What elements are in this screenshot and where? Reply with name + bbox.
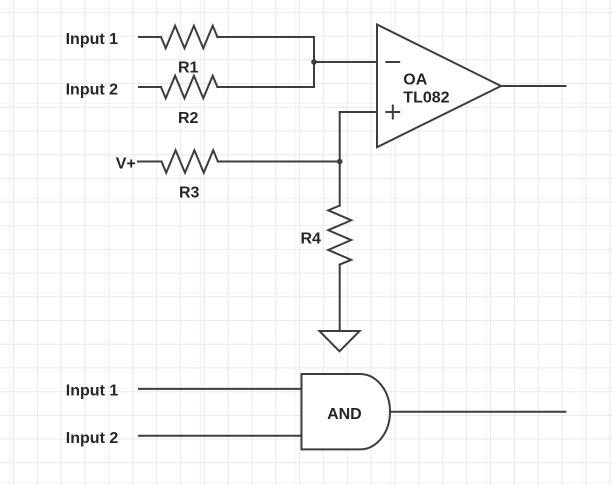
junction node B dot — [337, 159, 343, 165]
ground symbol — [319, 331, 359, 351]
wire V+ to R3 — [138, 161, 162, 163]
wire node B down to R4 — [339, 162, 341, 206]
op-amp non-inverting pin marker (plus) — [385, 105, 400, 120]
wire node A to op-amp inverting input — [314, 61, 377, 63]
svg-text:V+: V+ — [116, 155, 136, 172]
svg-text:R3: R3 — [179, 185, 200, 202]
resistor R2 — [161, 76, 217, 99]
svg-text:TL082: TL082 — [403, 89, 449, 106]
resistor R3 — [162, 150, 218, 173]
svg-text:Input 2: Input 2 — [66, 82, 119, 99]
svg-text:Input 2: Input 2 — [66, 430, 119, 447]
svg-text:R1: R1 — [178, 59, 199, 76]
resistor R4 — [328, 206, 351, 265]
junction node A dot — [311, 59, 317, 65]
wire vertical tying R1 and R2 outputs — [313, 37, 315, 87]
svg-text:AND: AND — [327, 406, 362, 423]
resistor R1 — [161, 26, 217, 49]
wire op-amp output — [501, 85, 566, 87]
svg-text:Input 1: Input 1 — [66, 31, 119, 48]
svg-text:R2: R2 — [178, 110, 199, 127]
op-amp inverting pin marker (minus) — [385, 61, 400, 63]
wire R2 to junction column — [217, 86, 314, 88]
wire AND Input 2 lead — [139, 435, 302, 437]
wire node B up to non-inverting input — [339, 112, 341, 162]
svg-text:Input 1: Input 1 — [66, 383, 119, 400]
wire op-amp non-inverting input horizontal — [340, 111, 377, 113]
svg-text:R4: R4 — [301, 231, 322, 248]
op-amp U1 body — [377, 25, 501, 148]
wire R1 to junction column — [217, 36, 314, 38]
svg-text:OA: OA — [403, 71, 427, 88]
wire R3 to node B — [218, 161, 340, 163]
wire R4 to ground — [339, 265, 341, 331]
wire AND Input 1 lead — [139, 388, 302, 390]
wire AND output — [390, 411, 566, 413]
wire Input 2 to R2 — [139, 86, 161, 88]
AND gate U2 body — [302, 374, 391, 449]
wire Input 1 to R1 — [139, 36, 161, 38]
